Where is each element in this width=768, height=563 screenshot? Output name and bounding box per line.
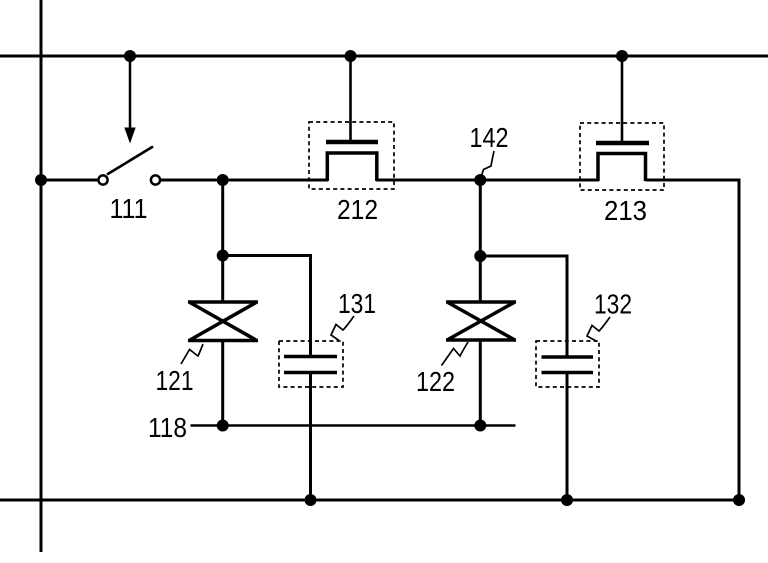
svg-text:213: 213 bbox=[604, 195, 647, 226]
wire: bottom horizontal rail bbox=[0, 499, 745, 502]
transistor 212 dashed box bbox=[309, 122, 394, 189]
junction: top rail / gate 213 bbox=[616, 50, 628, 62]
junction: capacitor 132 / bottom rail bbox=[561, 494, 573, 506]
wire: branch 2 vertical lower (element 122 to node 118 line) bbox=[479, 339, 482, 426]
leader for 142 bbox=[481, 151, 494, 177]
junction: row line / branch 1 bbox=[217, 174, 229, 186]
wire: branch 2 jog to capacitor 132 bbox=[480, 256, 567, 357]
junction: branch 2 / 118 line bbox=[474, 420, 486, 432]
junction: branch 1 / 118 line bbox=[217, 420, 229, 432]
arrow (switch actuation from top rail) bbox=[124, 56, 135, 144]
svg-text:131: 131 bbox=[338, 288, 376, 319]
switch 111 right contact bbox=[151, 175, 160, 184]
leader for 122 bbox=[442, 342, 469, 366]
wire: row line from left bus to switch bbox=[41, 179, 98, 182]
leader for 132 bbox=[587, 317, 610, 342]
junction: top rail / gate 212 bbox=[345, 50, 357, 62]
wire: node 118 horizontal line bbox=[191, 424, 516, 427]
transistor 213 gate wire bbox=[621, 56, 624, 143]
junction: right vertical / bottom rail bbox=[733, 494, 745, 506]
svg-text:212: 212 bbox=[337, 194, 378, 225]
wire: left vertical bus bbox=[40, 0, 43, 552]
capacitor 131 top plate bbox=[284, 355, 337, 359]
wire: capacitor 131 to bottom rail bbox=[309, 373, 312, 501]
capacitor 132 top plate bbox=[542, 355, 594, 359]
capacitor 131 bottom plate bbox=[284, 371, 337, 375]
wire: branch 2 vertical upper (node 142 to element 122) bbox=[479, 180, 482, 303]
wire: branch 1 vertical upper (row to element 121) bbox=[221, 180, 224, 303]
transistor 212 gate bar bbox=[326, 140, 378, 145]
transistor 212 channel bbox=[327, 153, 377, 181]
transistor 213 dashed box bbox=[580, 123, 664, 190]
junction: branch 2 jog bbox=[474, 250, 486, 262]
junction: left bus / row line bbox=[35, 174, 47, 186]
junction: capacitor 131 / bottom rail bbox=[305, 494, 317, 506]
junction: top rail / arrow bbox=[124, 50, 136, 62]
wire: capacitor 132 to bottom rail bbox=[566, 373, 569, 501]
leader for 131 bbox=[331, 316, 354, 341]
junction node 142 bbox=[474, 174, 486, 186]
transistor 213 gate bar bbox=[596, 141, 649, 146]
wire: row line from switch to transistor 212 bbox=[161, 179, 328, 182]
element 121 (variable resistance) bbox=[188, 302, 258, 341]
transistor 213 channel bbox=[598, 154, 646, 182]
svg-text:118: 118 bbox=[148, 412, 187, 443]
capacitor 132 dashed box bbox=[536, 341, 599, 387]
wire: branch 1 jog to capacitor 131 bbox=[223, 256, 311, 358]
transistor 212 gate wire bbox=[349, 56, 352, 142]
junction: branch 1 jog bbox=[217, 250, 229, 262]
wire: branch 1 vertical lower (element 121 to node 118 line) bbox=[221, 339, 224, 426]
svg-text:142: 142 bbox=[470, 122, 509, 153]
wire: top horizontal rail bbox=[0, 55, 768, 58]
leader for 121 bbox=[181, 344, 203, 364]
wire: right vertical (row line corner down to bottom rail) bbox=[646, 180, 740, 500]
element 122 (variable resistance) bbox=[446, 302, 516, 340]
svg-text:121: 121 bbox=[156, 365, 194, 396]
svg-text:111: 111 bbox=[110, 193, 148, 224]
switch 111 left contact bbox=[98, 175, 107, 184]
switch 111 lever bbox=[107, 147, 153, 175]
svg-text:122: 122 bbox=[416, 366, 455, 397]
capacitor 131 dashed box bbox=[279, 341, 343, 387]
capacitor 132 bottom plate bbox=[542, 371, 594, 375]
svg-text:132: 132 bbox=[594, 289, 632, 320]
wire: row line from transistor 212 to transistor 213 bbox=[376, 179, 599, 182]
